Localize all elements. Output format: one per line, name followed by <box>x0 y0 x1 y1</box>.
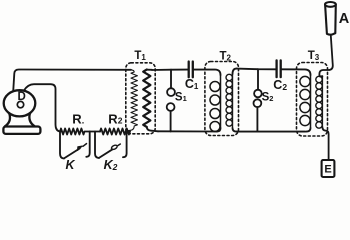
svg-text:K2: K2 <box>104 158 118 172</box>
capacitor C2 plates <box>275 60 277 77</box>
wire top bus T1 to C1 <box>152 69 188 71</box>
svg-text:E: E <box>324 164 331 176</box>
device D (microphone/transmitter) body <box>3 90 40 134</box>
transformer T1 primary winding (fine zigzag) <box>127 70 137 131</box>
svg-text:T3: T3 <box>308 50 320 62</box>
antenna A cylinder <box>325 2 336 35</box>
switch K2 left post <box>95 132 99 159</box>
resistor R1 <box>60 129 90 135</box>
transformer T3 primary winding (large loops) <box>300 75 311 128</box>
transformer T3 secondary winding (small loops) <box>316 76 323 128</box>
svg-text:S1: S1 <box>175 91 187 103</box>
wire R2 to T1 primary bottom <box>127 130 130 133</box>
spark gap S1 upper ball <box>167 88 175 96</box>
wire S1 bottom drop <box>170 111 172 131</box>
switch K left post <box>60 132 64 159</box>
svg-text:S2: S2 <box>262 92 274 104</box>
svg-text:C1: C1 <box>185 77 199 91</box>
svg-text:K: K <box>65 158 75 172</box>
wire between resistors <box>90 131 100 133</box>
switch K2 right post <box>123 133 127 158</box>
svg-text:A: A <box>339 11 350 27</box>
transformer T2 primary winding (large loops) <box>210 75 221 132</box>
transformer T1 dashed enclosure <box>126 63 155 134</box>
bottom bus T1 to T2 <box>158 130 217 132</box>
earth E box <box>322 160 335 177</box>
wire C2 to T3 <box>282 69 311 75</box>
wire S2 top drop <box>257 69 259 90</box>
transformer T1 secondary winding (bold zigzag) <box>143 70 150 128</box>
wire T3 secondary bottom to earth <box>322 127 328 160</box>
T1 secondary top stub to bus <box>147 69 152 71</box>
capacitor C1 plates <box>188 62 190 78</box>
switch K arrowhead <box>78 146 83 151</box>
resistor R2 <box>100 129 130 135</box>
wire antenna down to T3 secondary top <box>319 36 332 77</box>
wire top bus T2 to C2 <box>237 68 276 71</box>
transformer T3 dashed enclosure <box>297 63 328 137</box>
svg-text:T1: T1 <box>134 50 146 62</box>
T2 primary bottom stub <box>217 128 221 132</box>
spark gap S2 upper ball <box>254 90 262 98</box>
switch K lever <box>64 148 80 158</box>
T2 secondary top stub to bus <box>233 69 237 74</box>
device D inner button circle <box>17 101 23 107</box>
spark gap S2 lower ball <box>254 99 262 107</box>
switch K right post <box>86 132 89 157</box>
wire S1 top drop <box>170 70 172 89</box>
bottom bus T2 to T3 <box>237 131 306 133</box>
svg-text:R.: R. <box>72 112 84 127</box>
spark gap S1 lower ball <box>167 103 175 111</box>
wire C1 to T2 <box>194 70 221 76</box>
switch K2 lever <box>99 149 113 158</box>
svg-text:C2: C2 <box>273 78 287 92</box>
T3 primary bottom stub <box>306 128 311 132</box>
wire top bus left segment with corner down to D <box>13 70 131 92</box>
transformer T2 secondary winding (small loops) <box>226 74 233 128</box>
wire S2 bottom drop <box>256 107 258 132</box>
switch K2 arrowhead loop <box>111 144 118 150</box>
svg-text:T2: T2 <box>220 50 232 62</box>
T1 secondary bottom stub to bottom bus <box>147 127 158 131</box>
svg-text:R2: R2 <box>108 112 122 127</box>
T2 secondary bottom stub <box>233 128 237 132</box>
wire from D top to resistor node <box>24 84 61 131</box>
transformer T2 dashed enclosure <box>205 62 239 136</box>
